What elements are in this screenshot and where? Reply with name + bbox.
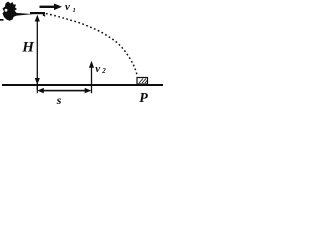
trajectory dashed curve	[46, 14, 137, 76]
v2 arrow	[89, 61, 94, 93]
svg-text:H: H	[21, 39, 35, 55]
s dimension line	[37, 88, 91, 93]
v1 arrow	[40, 4, 63, 11]
svg-text:v: v	[95, 63, 100, 75]
svg-text:s: s	[56, 93, 62, 107]
svg-text:2: 2	[101, 67, 106, 75]
target box at P	[137, 78, 148, 85]
svg-text:1: 1	[73, 7, 76, 14]
ground line	[2, 84, 163, 86]
thrower figure	[0, 2, 33, 21]
svg-text:v: v	[65, 1, 70, 13]
svg-text:P: P	[139, 91, 148, 106]
H dimension line	[35, 15, 40, 93]
platform edge	[30, 12, 45, 17]
